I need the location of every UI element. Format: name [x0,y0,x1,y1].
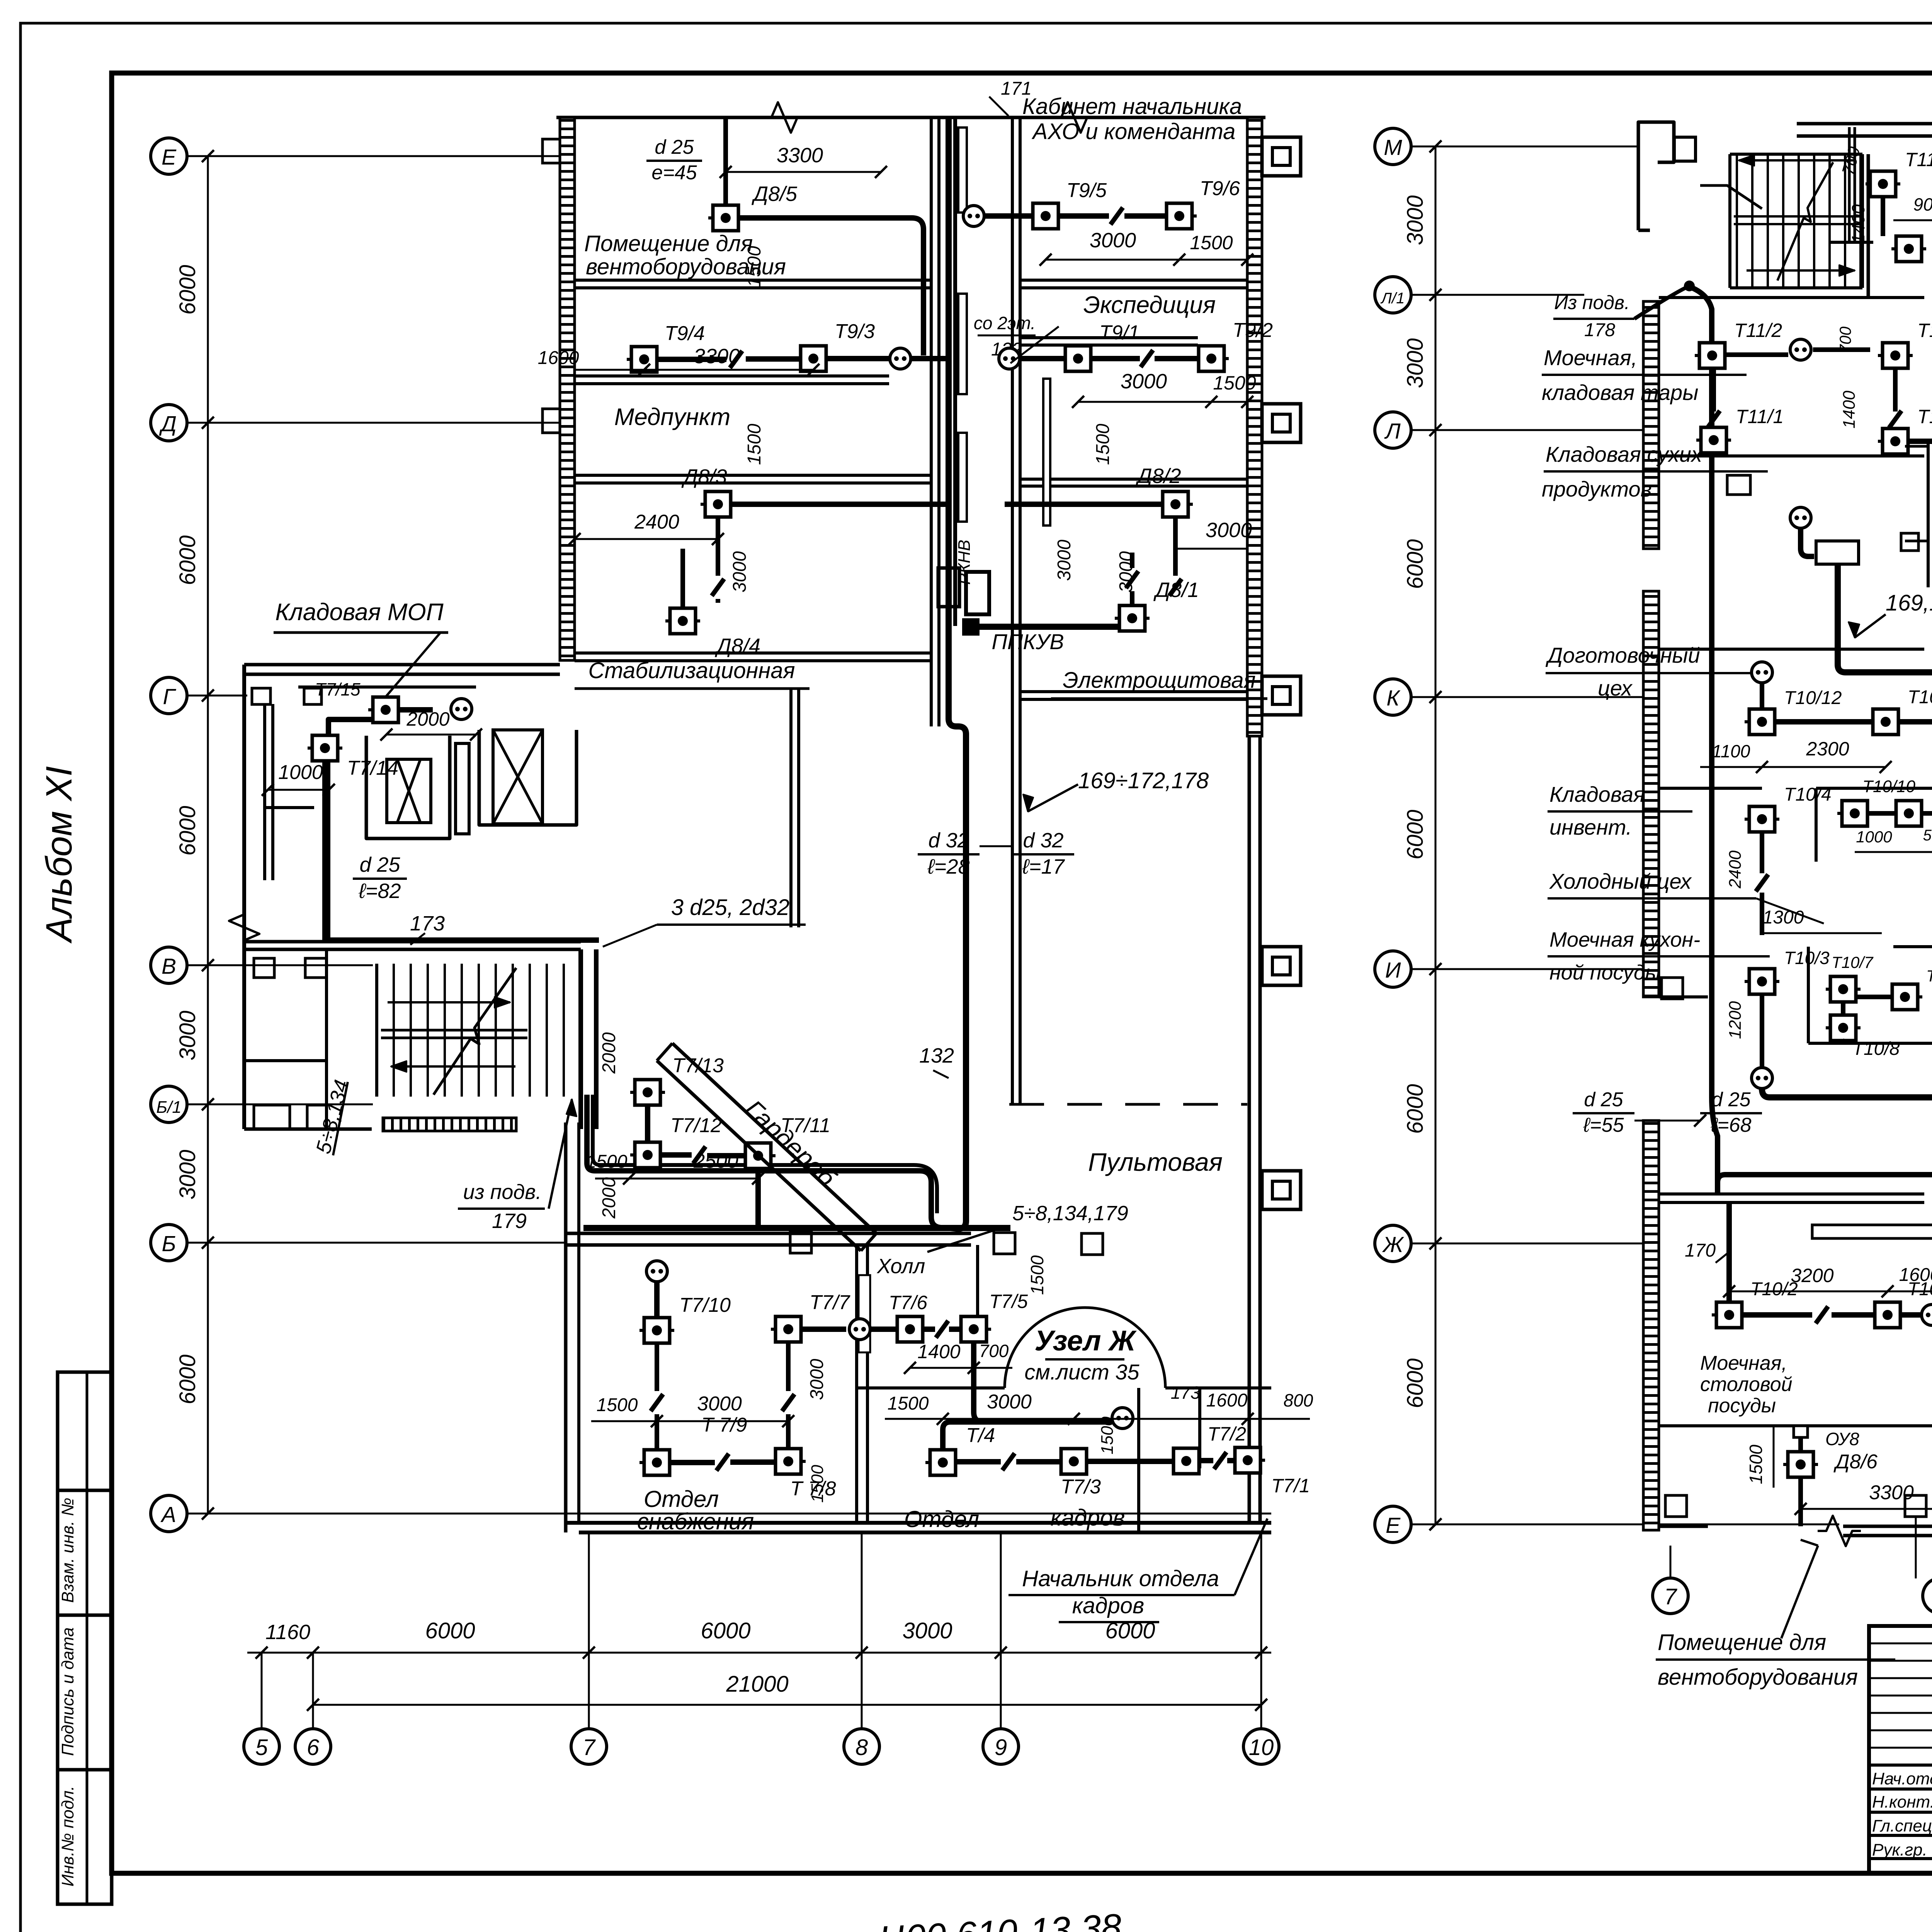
svg-text:d 25: d 25 [1584,1088,1623,1111]
svg-text:Т11/4: Т11/4 [1917,406,1932,427]
svg-text:169,178: 169,178 [1886,590,1932,616]
svg-text:169÷172,178: 169÷172,178 [1078,768,1209,793]
svg-text:Узел Ж: Узел Ж [1034,1325,1137,1357]
svg-text:Кабинет начальника: Кабинет начальника [1022,94,1242,119]
svg-text:Л: Л [1384,419,1401,444]
svg-text:2500: 2500 [693,1150,738,1172]
svg-text:Е: Е [1386,1513,1401,1538]
svg-text:вентоборудования: вентоборудования [586,254,786,279]
svg-text:1500: 1500 [1213,372,1256,394]
svg-text:132: 132 [919,1044,954,1067]
svg-text:продуктов: продуктов [1542,477,1652,501]
svg-text:179: 179 [492,1209,527,1233]
svg-text:Т7/2: Т7/2 [1207,1423,1246,1445]
svg-text:Т10/10: Т10/10 [1862,777,1916,796]
svg-text:6000: 6000 [1403,810,1428,859]
svg-text:3300: 3300 [694,345,740,368]
svg-text:см.лист 35: см.лист 35 [1024,1360,1139,1384]
svg-text:ОУ8: ОУ8 [1825,1429,1859,1449]
svg-text:1000: 1000 [278,761,323,784]
svg-text:А: А [160,1502,176,1527]
svg-text:Холодный цех: Холодный цех [1549,869,1692,893]
svg-text:Помещение для: Помещение для [584,231,753,256]
svg-text:6000: 6000 [701,1618,750,1643]
svg-text:3300: 3300 [1869,1481,1914,1504]
svg-text:173: 173 [1171,1383,1201,1403]
svg-text:ℓ=68: ℓ=68 [1710,1114,1751,1136]
svg-text:3000: 3000 [807,1359,827,1400]
svg-text:d 25: d 25 [1711,1088,1751,1111]
svg-text:8: 8 [855,1735,868,1760]
svg-text:3000: 3000 [1403,338,1428,388]
svg-text:170: 170 [1685,1240,1716,1261]
svg-text:1000: 1000 [1856,828,1892,846]
svg-text:Т10/7: Т10/7 [1832,953,1874,971]
svg-text:1400: 1400 [1848,204,1868,244]
svg-text:Б: Б [162,1231,176,1256]
svg-text:Помещение для: Помещение для [1658,1630,1826,1655]
svg-text:РКНВ: РКНВ [955,540,974,585]
svg-text:Т9/3: Т9/3 [835,320,875,343]
svg-text:3000: 3000 [1403,195,1428,245]
svg-text:Г: Г [163,684,176,709]
svg-text:Т/4: Т/4 [966,1424,995,1447]
svg-text:2400: 2400 [634,511,679,533]
svg-text:посуды: посуды [1708,1395,1776,1417]
svg-text:6000: 6000 [175,265,200,315]
svg-text:Электрощитовая: Электрощитовая [1063,668,1255,693]
svg-text:В: В [162,954,176,979]
svg-text:Т7/5: Т7/5 [989,1291,1028,1312]
svg-text:Моечная кухон-: Моечная кухон- [1549,928,1700,951]
svg-text:Д: Д [159,412,177,436]
svg-text:1500: 1500 [808,1465,827,1503]
svg-text:Моечная,: Моечная, [1544,345,1637,370]
svg-text:6000: 6000 [1403,1084,1428,1134]
svg-text:инвент.: инвент. [1549,815,1632,839]
svg-text:столовой: столовой [1700,1373,1793,1396]
svg-text:снабжения: снабжения [637,1509,754,1534]
svg-text:800: 800 [1284,1390,1313,1410]
svg-text:Т11/3: Т11/3 [1917,320,1932,341]
svg-text:Т9/4: Т9/4 [665,322,705,345]
svg-text:d 32: d 32 [1023,829,1063,852]
svg-text:3000: 3000 [1121,370,1167,393]
svg-text:Т10/8: Т10/8 [1852,1039,1900,1059]
svg-text:3000: 3000 [730,551,750,592]
svg-text:Т9/5: Т9/5 [1066,179,1107,202]
svg-text:Экспедиция: Экспедиция [1083,292,1216,318]
svg-text:3000: 3000 [697,1393,742,1415]
svg-text:Из подв.: Из подв. [1554,292,1630,313]
svg-text:Взам. инв. №: Взам. инв. № [58,1498,77,1603]
svg-text:Т11/6: Т11/6 [1905,149,1932,170]
svg-text:1160: 1160 [265,1621,310,1644]
svg-text:d 32: d 32 [928,829,969,852]
svg-text:Т 7/9: Т 7/9 [701,1414,747,1436]
svg-text:10: 10 [1249,1735,1274,1760]
svg-text:2000: 2000 [406,708,449,730]
svg-text:171: 171 [1001,78,1032,99]
svg-text:1600: 1600 [1899,1265,1932,1285]
svg-text:700: 700 [1836,326,1854,354]
svg-text:Кладовая сухих: Кладовая сухих [1546,442,1703,466]
svg-text:7: 7 [1664,1584,1678,1609]
svg-text:ППКУВ: ППКУВ [992,629,1064,654]
svg-text:Т7/14: Т7/14 [347,757,398,779]
svg-text:Т10/11: Т10/11 [1908,687,1932,707]
svg-text:3000: 3000 [987,1391,1032,1413]
svg-text:Д8/3: Д8/3 [681,465,727,488]
svg-text:Отдел: Отдел [644,1486,719,1512]
svg-text:900: 900 [1913,194,1932,214]
svg-text:Доготовочный: Доготовочный [1545,643,1700,667]
svg-text:кадров: кадров [1051,1505,1125,1531]
svg-text:Рук.гр.: Рук.гр. [1872,1840,1927,1859]
svg-text:2300: 2300 [1806,738,1849,760]
svg-text:Т7/15: Т7/15 [315,679,361,699]
svg-text:Т7/6: Т7/6 [889,1292,927,1313]
svg-text:Холл: Холл [876,1255,925,1278]
svg-text:6000: 6000 [175,1354,200,1404]
svg-text:из подв.: из подв. [463,1180,542,1204]
svg-text:Д8/5: Д8/5 [752,182,798,206]
svg-text:Гл.спец.: Гл.спец. [1872,1816,1932,1835]
svg-text:6000: 6000 [425,1618,475,1643]
svg-text:1500: 1500 [597,1395,638,1415]
svg-text:Кладовая: Кладовая [1549,782,1645,806]
svg-text:d 25: d 25 [359,853,400,876]
svg-text:21000: 21000 [726,1672,788,1697]
svg-text:Нач.отд.: Нач.отд. [1872,1769,1932,1788]
svg-text:3300: 3300 [777,144,823,167]
svg-text:d 25: d 25 [655,136,694,158]
svg-text:6000: 6000 [175,806,200,855]
svg-text:e=45: e=45 [651,162,697,184]
svg-text:1500: 1500 [1027,1255,1047,1295]
svg-text:ℓ=82: ℓ=82 [358,879,401,903]
svg-text:Т10/12: Т10/12 [1784,688,1842,708]
svg-text:Стабилизационная: Стабилизационная [588,658,795,683]
svg-text:3000: 3000 [1054,539,1075,581]
svg-text:1500: 1500 [888,1393,929,1414]
svg-text:178: 178 [1584,320,1615,340]
svg-text:Т7/3: Т7/3 [1061,1476,1101,1498]
svg-text:кладовая тары: кладовая тары [1542,380,1698,405]
svg-text:кадров: кадров [1072,1593,1145,1618]
svg-text:6000: 6000 [1403,1358,1428,1408]
svg-text:Инв.№ подл.: Инв.№ подл. [58,1786,77,1887]
svg-text:Т9/1: Т9/1 [1099,321,1139,344]
svg-text:1500: 1500 [1093,423,1113,465]
svg-text:Кладовая МОП: Кладовая МОП [275,599,443,626]
svg-text:ℓ=28: ℓ=28 [927,855,969,878]
svg-text:1500: 1500 [744,423,765,465]
svg-text:1600: 1600 [1206,1390,1248,1411]
svg-text:ной посуды: ной посуды [1549,961,1661,984]
svg-text:2400: 2400 [1726,850,1745,889]
svg-text:Альбом XI: Альбом XI [39,766,80,944]
svg-text:9: 9 [995,1735,1007,1760]
svg-text:3000: 3000 [1206,519,1252,542]
svg-text:Д8/2: Д8/2 [1135,464,1181,488]
svg-text:Т9/6: Т9/6 [1200,177,1240,200]
svg-text:5: 5 [255,1735,268,1760]
svg-text:Т7/10: Т7/10 [679,1294,731,1316]
svg-text:Т7/1: Т7/1 [1271,1475,1310,1497]
svg-text:Т7/12: Т7/12 [670,1114,722,1137]
svg-text:1500: 1500 [1098,1417,1117,1454]
svg-text:М: М [1384,135,1402,160]
svg-text:6000: 6000 [1403,539,1428,589]
svg-text:1400: 1400 [1840,391,1859,429]
svg-text:1500: 1500 [586,1151,628,1172]
svg-text:1100: 1100 [1712,741,1750,761]
svg-text:Ж: Ж [1382,1232,1405,1257]
svg-text:1500: 1500 [1746,1444,1766,1484]
svg-text:Н.конт.: Н.конт. [1872,1793,1932,1811]
svg-text:3 d25, 2d32: 3 d25, 2d32 [671,895,789,920]
svg-text:Пультовая: Пультовая [1088,1148,1223,1176]
svg-text:Отдел: Отдел [904,1506,979,1532]
svg-text:ℓ=17: ℓ=17 [1022,855,1065,878]
svg-text:5÷8,134,179: 5÷8,134,179 [1012,1202,1128,1225]
svg-text:Т9/2: Т9/2 [1233,319,1273,342]
svg-text:Т11/2: Т11/2 [1734,320,1782,341]
svg-text:К: К [1386,686,1401,711]
svg-text:И: И [1385,958,1401,983]
svg-text:3000: 3000 [902,1618,952,1643]
svg-text:Д8/4: Д8/4 [715,634,760,658]
svg-text:700: 700 [979,1341,1009,1361]
svg-text:1600: 1600 [538,348,579,368]
svg-text:Начальник отдела: Начальник отдела [1022,1566,1219,1591]
svg-text:2000: 2000 [599,1177,619,1219]
svg-text:1300: 1300 [1763,907,1804,928]
svg-text:ℓ=55: ℓ=55 [1583,1114,1624,1136]
svg-text:3000: 3000 [175,1010,200,1060]
svg-text:Д8/6: Д8/6 [1833,1451,1878,1473]
svg-text:Моечная,: Моечная, [1700,1352,1787,1374]
svg-text:Д8/1: Д8/1 [1153,578,1199,602]
svg-text:Т7/7: Т7/7 [810,1291,850,1314]
svg-text:Т10/6: Т10/6 [1926,967,1932,985]
svg-text:цех: цех [1598,676,1633,700]
svg-text:1400: 1400 [917,1341,960,1362]
svg-text:Б/1: Б/1 [156,1098,181,1117]
svg-text:1200: 1200 [1726,1001,1745,1039]
svg-text:Т11/1: Т11/1 [1736,406,1784,427]
svg-text:Е: Е [162,145,177,170]
svg-text:173: 173 [410,912,445,935]
svg-text:Л/1: Л/1 [1380,290,1405,307]
svg-text:Медпункт: Медпункт [614,404,731,430]
svg-text:3000: 3000 [1090,229,1136,252]
svg-text:со 2эт.: со 2эт. [974,313,1036,333]
svg-text:6000: 6000 [175,535,200,585]
svg-text:3000: 3000 [175,1150,200,1199]
svg-text:7: 7 [583,1735,596,1760]
svg-text:500: 500 [1923,827,1932,844]
svg-text:Подпись и дата: Подпись и дата [58,1628,77,1756]
svg-text:АХО и коменданта: АХО и коменданта [1032,119,1236,144]
svg-text:6: 6 [307,1735,320,1760]
svg-text:2000: 2000 [599,1032,619,1074]
svg-text:вентоборудования: вентоборудования [1658,1665,1858,1690]
svg-text:3200: 3200 [1791,1265,1833,1286]
svg-text:1500: 1500 [1190,232,1233,253]
